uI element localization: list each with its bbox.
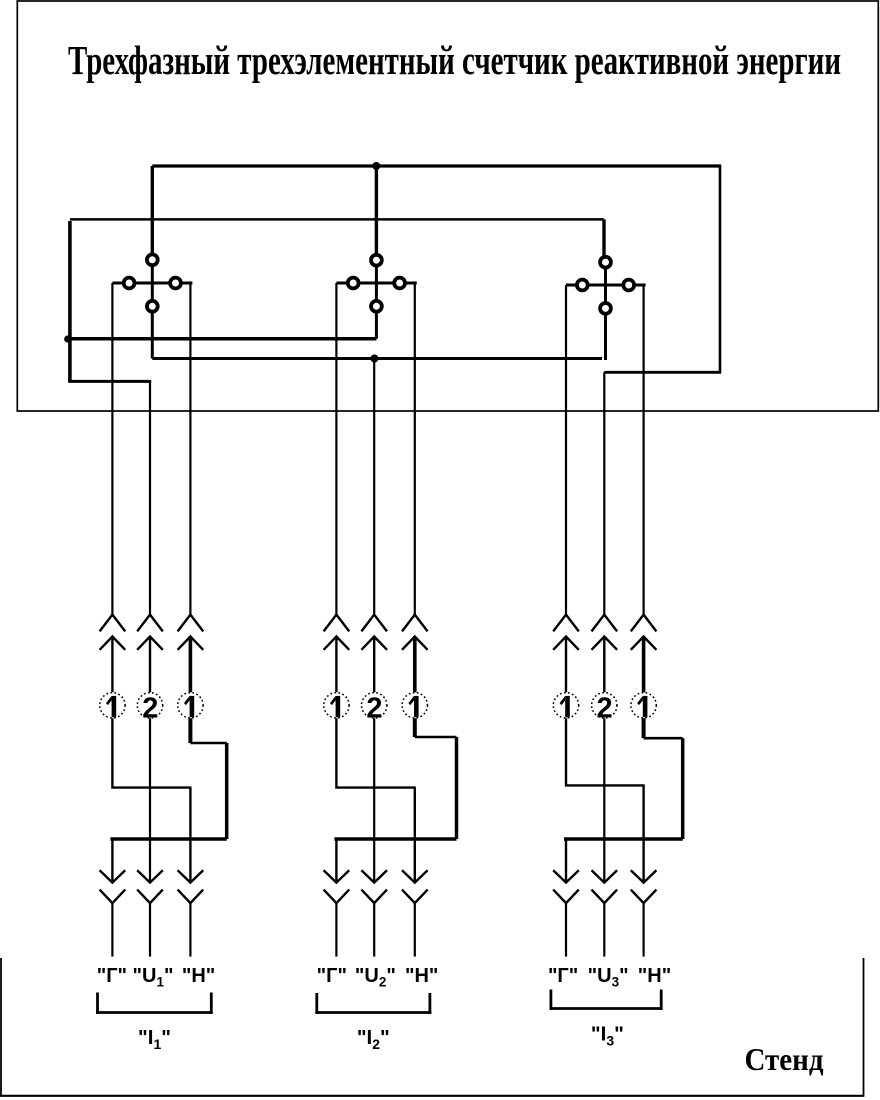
svg-text:"Г": "Г"	[97, 965, 127, 987]
svg-text:Стенд: Стенд	[745, 1042, 824, 1077]
svg-text:"Н": "Н"	[182, 965, 215, 987]
svg-text:"I3": "I3"	[591, 1023, 624, 1049]
svg-text:"Г": "Г"	[548, 965, 578, 987]
svg-text:"I2": "I2"	[357, 1026, 390, 1052]
svg-text:"I1": "I1"	[138, 1026, 171, 1052]
svg-text:"Н": "Н"	[638, 965, 671, 987]
svg-text:"Н": "Н"	[405, 965, 438, 987]
svg-text:Трехфазный трехэлементный счет: Трехфазный трехэлементный счетчик реакти…	[68, 37, 841, 83]
svg-text:"U2": "U2"	[355, 965, 396, 990]
svg-text:"Г": "Г"	[317, 965, 347, 987]
svg-text:"U3": "U3"	[588, 965, 629, 990]
svg-text:"U1": "U1"	[133, 965, 174, 990]
